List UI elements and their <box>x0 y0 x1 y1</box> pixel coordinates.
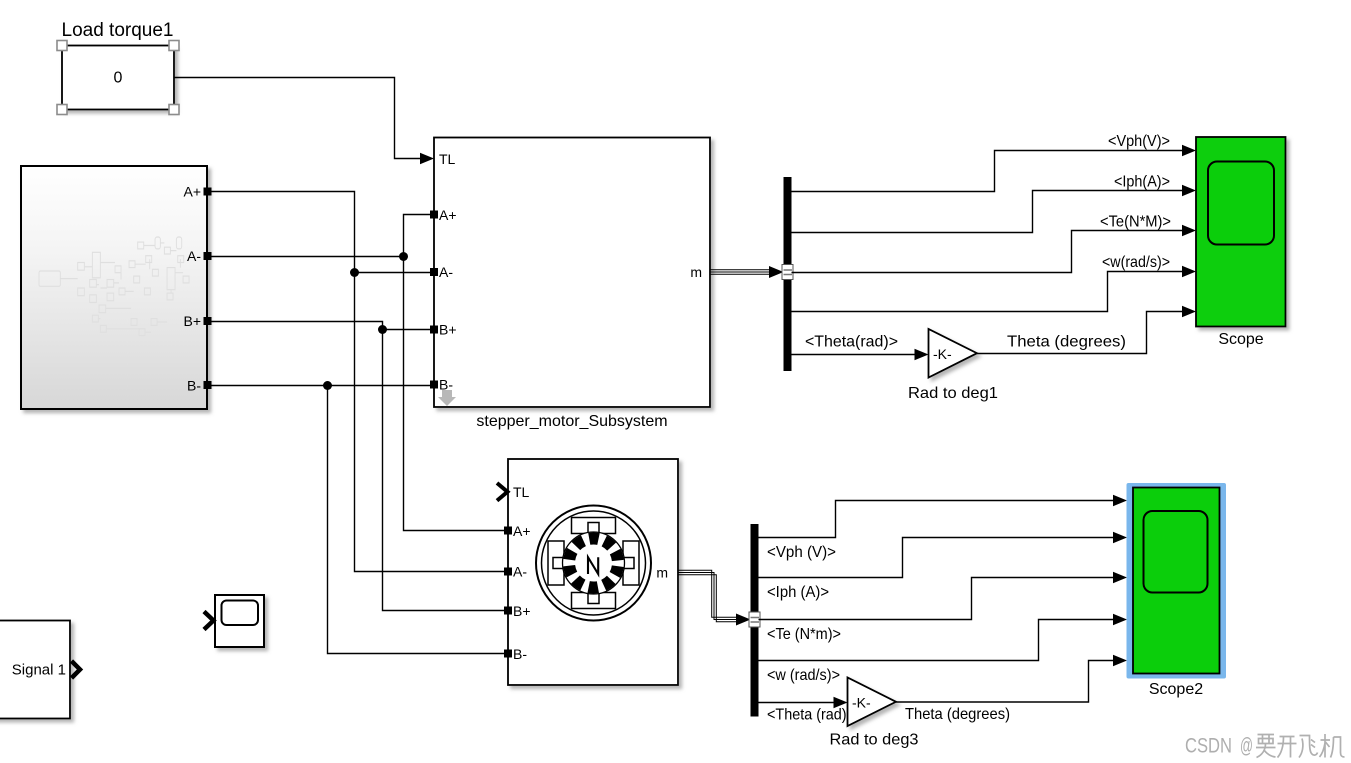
scope Scope <box>1196 137 1286 327</box>
svg-text:@: @ <box>1240 735 1253 758</box>
glyph kai <box>1278 737 1297 758</box>
preview thumbnail inside left subsystem <box>39 237 189 336</box>
gain Rad to deg3 <box>848 678 897 727</box>
wire Theta(rad) to gain1 <box>792 354 916 356</box>
bus selector 2 <box>751 524 759 717</box>
svg-text:-K-: -K- <box>852 695 871 711</box>
svg-text:B+: B+ <box>513 603 531 619</box>
svg-text:A+: A+ <box>513 523 531 539</box>
wire Load torque1 to TL <box>175 78 423 159</box>
wire w (rad/s) lower <box>759 620 1115 661</box>
glyph yao <box>1256 735 1276 758</box>
svg-text:TL: TL <box>513 484 530 500</box>
svg-text:<w (rad/s)>: <w (rad/s)> <box>767 667 840 684</box>
junction A+/A- tap <box>350 268 359 277</box>
svg-text:m: m <box>690 264 702 280</box>
wire B- net <box>212 386 509 654</box>
svg-text:B-: B- <box>513 646 527 662</box>
wire w(rad/s) upper <box>792 272 1184 312</box>
subsystem left source block <box>21 166 207 409</box>
svg-text:<Iph(A)>: <Iph(A)> <box>1114 174 1170 191</box>
stepper motor block <box>508 459 678 685</box>
arrowhead TL input <box>420 153 434 165</box>
wire Te (N*m) lower <box>759 578 1115 620</box>
arrowhead w Scope2 <box>1113 614 1127 626</box>
port markers left subsystem outputs <box>204 188 212 390</box>
svg-text:Rad to deg1: Rad to deg1 <box>908 385 998 402</box>
port markers subsystem inputs <box>430 211 438 389</box>
arrowhead Vph upper <box>1182 145 1196 157</box>
arrowhead bus into BusSelector2 <box>736 614 751 626</box>
small scope block <box>215 595 264 647</box>
svg-text:A+: A+ <box>183 184 201 200</box>
svg-text:A-: A- <box>187 248 201 264</box>
bus selector 2 input marker <box>749 612 760 627</box>
wire Theta (rad) to gain3 <box>759 702 835 704</box>
stepper motor icon <box>536 506 651 621</box>
wire A+ net <box>212 192 509 572</box>
wire Theta degrees to Scope <box>977 312 1183 354</box>
svg-text:stepper_motor_Subsystem: stepper_motor_Subsystem <box>476 413 667 430</box>
arrowhead Vph Scope2 <box>1113 495 1127 507</box>
svg-text:<Te(N*M)>: <Te(N*M)> <box>1100 214 1171 231</box>
arrowhead bus into BusSelector1 <box>769 266 784 278</box>
svg-text:0: 0 <box>114 70 123 87</box>
source block Signal 1 <box>0 621 70 719</box>
glyph fei <box>1299 736 1318 758</box>
selection handles Load torque1 <box>57 41 179 115</box>
arrowhead Theta degrees Scope <box>1182 306 1196 318</box>
wire A- net <box>212 215 509 531</box>
wire Te(N*M) upper <box>792 231 1184 273</box>
constant block Load torque1 <box>62 46 174 110</box>
svg-text:B-: B- <box>187 378 201 394</box>
svg-text:<w(rad/s)>: <w(rad/s)> <box>1102 254 1170 271</box>
wire Iph (A) lower <box>759 538 1115 578</box>
svg-text:A-: A- <box>439 264 453 280</box>
subsystem stepper_motor_Subsystem <box>434 138 710 408</box>
arrowhead Theta degrees Scope2 <box>1113 655 1127 667</box>
unconnected input chevron small scope <box>204 612 214 630</box>
svg-text:<Theta (rad)>: <Theta (rad)> <box>767 707 855 724</box>
svg-text:Theta (degrees): Theta (degrees) <box>1007 334 1126 351</box>
junction A- <box>399 252 408 261</box>
svg-text:CSDN: CSDN <box>1185 735 1232 758</box>
arrowhead gain1 input <box>915 349 929 361</box>
wire Iph(A) upper <box>792 191 1184 233</box>
arrowhead gain3 input <box>834 697 848 709</box>
arrowhead Iph upper <box>1182 185 1196 197</box>
scope Scope2 selected <box>1127 483 1227 679</box>
svg-text:m: m <box>656 565 668 581</box>
wire Vph(V) upper <box>792 151 1184 192</box>
subsystem open-arrow badge <box>438 390 456 406</box>
junction B+ <box>378 325 387 334</box>
arrowhead w upper <box>1182 266 1196 278</box>
wire Vph (V) lower <box>759 501 1115 538</box>
svg-text:Theta (degrees): Theta (degrees) <box>905 706 1010 723</box>
svg-text:TL: TL <box>439 151 456 167</box>
arrowhead Iph Scope2 <box>1113 532 1127 544</box>
port markers motor inputs <box>504 527 512 658</box>
gain Rad to deg1 <box>929 329 978 378</box>
svg-text:<Vph (V)>: <Vph (V)> <box>767 544 836 561</box>
svg-text:B+: B+ <box>183 313 201 329</box>
bus selector 1 input marker <box>782 265 793 280</box>
svg-text:<Te (N*m)>: <Te (N*m)> <box>767 626 841 643</box>
svg-text:Scope: Scope <box>1218 331 1263 348</box>
wire Theta degrees to Scope2 <box>896 661 1114 703</box>
unconnected output chevron Signal 1 <box>72 661 81 678</box>
arrowhead Te upper <box>1182 225 1196 237</box>
svg-text:B+: B+ <box>439 322 457 338</box>
svg-text:A+: A+ <box>439 207 457 223</box>
svg-text:<Vph(V)>: <Vph(V)> <box>1108 133 1170 150</box>
bus wire m to BusSelector1 <box>710 270 770 275</box>
junction B- <box>323 381 332 390</box>
svg-text:Scope2: Scope2 <box>1149 681 1203 698</box>
glyph ji <box>1320 734 1345 758</box>
arrowhead Te Scope2 <box>1113 572 1127 584</box>
unconnected input chevron TL motor <box>497 483 508 501</box>
svg-text:Signal 1: Signal 1 <box>12 662 66 679</box>
svg-text:A-: A- <box>513 564 527 580</box>
svg-text:<Theta(rad)>: <Theta(rad)> <box>805 334 898 351</box>
bus wire m motor to BusSelector2 <box>678 570 737 622</box>
motor N label <box>588 557 598 574</box>
bus selector 1 <box>784 177 792 371</box>
svg-text:Rad to deg3: Rad to deg3 <box>830 732 919 749</box>
svg-text:Load torque1: Load torque1 <box>62 20 174 41</box>
svg-text:<Iph (A)>: <Iph (A)> <box>767 584 829 601</box>
wire B+ net <box>212 322 509 611</box>
svg-text:-K-: -K- <box>933 346 952 362</box>
watermark CSDN <box>1185 734 1345 758</box>
